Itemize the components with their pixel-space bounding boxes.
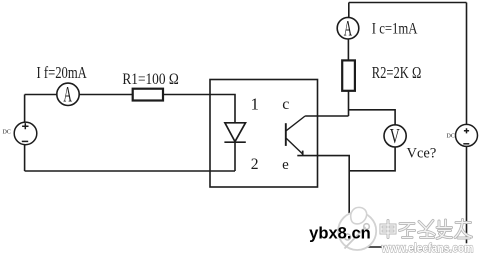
svg-text:Vce?: Vce? xyxy=(407,145,437,161)
wire emitter right and down xyxy=(297,156,349,247)
watermark text 电子发烧友 xyxy=(381,220,472,239)
wire voltmeter bottom branch xyxy=(349,147,395,171)
phototransistor Q1 xyxy=(286,116,305,156)
wire right vertical bottom xyxy=(466,146,468,247)
svg-text:DC: DC xyxy=(447,134,455,140)
svg-text:2: 2 xyxy=(251,156,259,173)
svg-text:V: V xyxy=(390,125,400,148)
wire top rail right loop xyxy=(349,2,467,4)
optocoupler box U1 xyxy=(210,80,318,188)
svg-text:I f=20mA: I f=20mA xyxy=(37,63,87,82)
svg-text:DC: DC xyxy=(3,130,11,136)
wire bottom rail right loop xyxy=(349,246,466,248)
wire Ic ammeter to R2 xyxy=(347,39,349,60)
wire bottom rail left loop xyxy=(25,170,235,172)
watermark url backing band xyxy=(387,243,474,253)
dc source V2 (right) xyxy=(456,124,478,146)
wire top rail to Ic ammeter xyxy=(348,3,350,18)
wire voltmeter top branch xyxy=(349,110,396,125)
wire LED cathode down xyxy=(234,142,236,171)
svg-text:A: A xyxy=(63,81,72,106)
ammeter A1 (If) xyxy=(57,81,79,106)
svg-text:ybx8.cn: ybx8.cn xyxy=(309,225,371,243)
watermark text 电子发烧友 white cores xyxy=(381,220,472,239)
resistor R2 xyxy=(342,60,355,90)
svg-text:e: e xyxy=(282,157,289,173)
wire R2 lead down to collector node xyxy=(348,91,350,116)
wire ammeter A1 to R1 xyxy=(79,94,133,96)
svg-text:I c=1mA: I c=1mA xyxy=(372,20,418,38)
ammeter A2 (Ic) xyxy=(337,15,359,40)
svg-text:www.elecfans.com: www.elecfans.com xyxy=(381,241,474,255)
svg-text:1: 1 xyxy=(251,94,260,113)
resistor R1 xyxy=(133,89,163,101)
svg-text:R1=100 Ω: R1=100 Ω xyxy=(122,69,178,88)
dc source V1 (left) xyxy=(14,122,37,145)
watermark logo circle xyxy=(338,207,376,250)
wire left vertical bottom (source to bottom rail) xyxy=(24,145,26,171)
LED diode D1 xyxy=(224,123,245,142)
wire top rail to ammeter A1 xyxy=(25,94,57,96)
svg-text:R2=2K Ω: R2=2K Ω xyxy=(372,63,422,82)
wire right vertical top xyxy=(466,3,468,125)
voltmeter V1 xyxy=(384,125,406,148)
svg-text:A: A xyxy=(344,15,352,40)
wire R1 to LED anode corner xyxy=(163,95,235,123)
wire collector to R2 node xyxy=(305,115,348,117)
wire left vertical top (source to top rail) xyxy=(24,95,26,123)
svg-text:c: c xyxy=(282,96,289,113)
